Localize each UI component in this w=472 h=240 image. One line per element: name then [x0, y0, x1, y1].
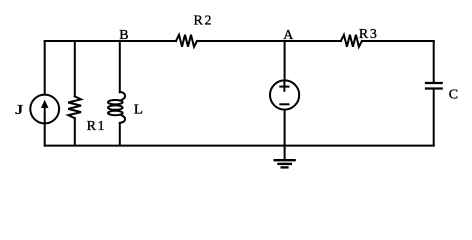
svg-text:C: C	[449, 88, 458, 103]
svg-text:R1: R1	[87, 119, 107, 134]
svg-text:A: A	[283, 28, 294, 43]
svg-text:J: J	[15, 103, 24, 118]
svg-text:B: B	[119, 28, 128, 43]
svg-text:L: L	[134, 103, 143, 118]
svg-text:R3: R3	[359, 27, 379, 42]
svg-text:R2: R2	[194, 13, 214, 28]
